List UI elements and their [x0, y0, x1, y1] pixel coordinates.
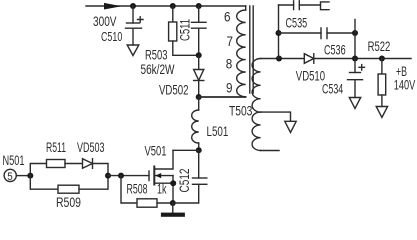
arrow 300V input direction	[104, 3, 122, 10]
node L501/drain/C512	[196, 147, 202, 153]
node gate / R508 branch	[118, 173, 124, 179]
wire upper branch left	[30, 164, 46, 176]
wire top 300V rail	[86, 5, 246, 7]
svg-text:C512: C512	[176, 168, 192, 192]
svg-text:VD503: VD503	[77, 139, 105, 155]
svg-text:C510: C510	[101, 30, 122, 44]
svg-text:5: 5	[7, 171, 13, 183]
svg-text:VD510: VD510	[296, 68, 325, 84]
wire secondary tap	[261, 112, 291, 121]
svg-text:VD502: VD502	[159, 81, 189, 97]
capacitor C535 top row	[279, 1, 321, 10]
node VD502/L501/pin9	[196, 94, 202, 100]
wire R511 to VD503	[65, 163, 83, 165]
svg-text:C535: C535	[286, 15, 308, 31]
ground secondary tap	[285, 121, 296, 132]
transistor V501 source	[154, 182, 173, 184]
svg-text:6: 6	[224, 9, 231, 25]
diode VD502	[194, 55, 204, 97]
svg-text:C534: C534	[322, 81, 343, 97]
inductor L501	[192, 97, 199, 150]
node secondary top / C535 branch	[276, 56, 282, 62]
node rail / C534	[352, 56, 358, 62]
node left branch	[27, 173, 33, 179]
transistor V501 drain	[154, 150, 173, 169]
transformer T503 primary winding	[199, 6, 246, 97]
svg-text:300V: 300V	[93, 13, 117, 29]
wire riser x355	[354, 20, 356, 59]
node rail / R522	[379, 56, 385, 62]
wire source riser	[172, 176, 174, 203]
capacitor C536	[279, 28, 356, 39]
node bottom junction	[170, 200, 176, 206]
node R503/C511/VD502	[196, 52, 202, 58]
transformer core	[250, 6, 253, 93]
wire terminal to node	[16, 175, 30, 177]
ground bar (chassis)	[172, 203, 174, 213]
resistor R508	[137, 199, 157, 207]
wire riser x278.5	[278, 5, 280, 59]
svg-text:R511: R511	[46, 139, 66, 155]
svg-text:C511: C511	[177, 19, 193, 41]
wire R508 to source node	[157, 202, 173, 204]
ground C534	[349, 98, 360, 109]
wire R509 to node	[79, 176, 108, 190]
wire secondary top to rail	[261, 58, 305, 60]
resistor R509	[58, 185, 79, 193]
svg-text:7: 7	[227, 33, 234, 49]
connector bracket top right	[321, 2, 330, 10]
svg-text:R508: R508	[127, 181, 148, 197]
node C536 row right	[352, 30, 358, 36]
ground C510	[127, 45, 139, 56]
svg-text:V501: V501	[145, 143, 167, 159]
node top rail / C511	[196, 3, 202, 9]
node top rail / C510	[130, 3, 136, 9]
transistor V501 body arrow	[154, 175, 173, 177]
capacitor C534	[348, 59, 365, 98]
capacitor C512	[173, 150, 207, 203]
diode VD503	[83, 159, 109, 176]
svg-text:R522: R522	[368, 38, 391, 54]
svg-text:N501: N501	[3, 152, 25, 168]
transistor V501 gate bar	[148, 171, 150, 181]
transistor V501 channel bar	[153, 167, 155, 185]
svg-text:C536: C536	[324, 42, 346, 58]
wire down to R508	[121, 176, 137, 203]
resistor R511	[47, 160, 66, 168]
svg-text:140V: 140V	[394, 76, 416, 92]
ground R522	[376, 107, 387, 118]
wire gate line	[108, 175, 149, 177]
capacitor C511	[192, 6, 207, 55]
resistor R503	[169, 6, 199, 55]
node branches rejoin	[105, 173, 111, 179]
wire node to drain riser	[173, 149, 199, 151]
svg-text:8: 8	[226, 55, 233, 71]
diode VD510	[304, 54, 411, 64]
resistor R522	[378, 59, 386, 107]
svg-text:56k/2W: 56k/2W	[141, 61, 176, 77]
capacitor C510	[126, 6, 144, 45]
wire pin 9 to node	[199, 96, 246, 98]
svg-text:R509: R509	[56, 194, 81, 210]
terminal 5 circle	[4, 169, 16, 181]
wire lower branch left	[30, 176, 58, 190]
node C536 row left	[276, 30, 282, 36]
svg-text:9: 9	[226, 80, 233, 96]
transformer T503 secondary winding	[252, 59, 279, 151]
svg-text:T503: T503	[229, 102, 253, 118]
node top rail / R503	[170, 3, 176, 9]
node source junction	[170, 180, 176, 186]
svg-text:L501: L501	[207, 123, 229, 139]
